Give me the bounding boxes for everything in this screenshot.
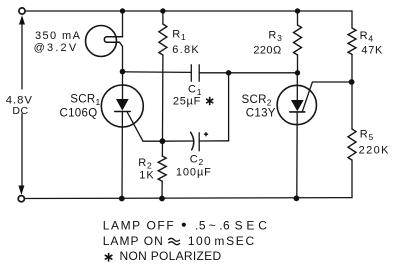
svg-text:C106Q: C106Q (60, 108, 98, 120)
svg-text:220K: 220K (359, 145, 390, 157)
svg-text:100µF: 100µF (176, 166, 212, 178)
svg-text:DC: DC (12, 105, 28, 117)
svg-text:350 mA: 350 mA (35, 30, 81, 42)
svg-text:NON POLARIZED: NON POLARIZED (120, 249, 222, 263)
svg-text:1K: 1K (139, 170, 154, 182)
svg-text:C13Y: C13Y (246, 108, 276, 120)
svg-text:47K: 47K (361, 45, 383, 57)
svg-text:25µF: 25µF (173, 96, 201, 108)
svg-text:6.8K: 6.8K (172, 44, 200, 56)
svg-text:@3.2V: @3.2V (34, 42, 79, 54)
svg-text:220Ω: 220Ω (253, 45, 281, 57)
